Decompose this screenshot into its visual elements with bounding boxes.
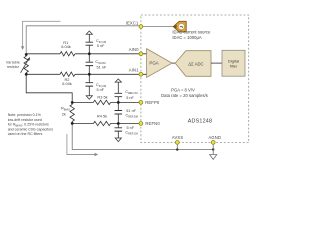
- capacitor Cin,cm on AIN1 with arrow down: [86, 74, 94, 99]
- pin AIN1: [139, 72, 143, 76]
- return current annotation arrow: [67, 134, 98, 156]
- digital filter block: [222, 50, 245, 76]
- svg-text:5 nF: 5 nF: [97, 44, 105, 48]
- label Variable resistor: [6, 60, 20, 69]
- Cin,dm labels: [95, 60, 106, 69]
- wire IEXC1 pin to IDAC: [141, 26, 173, 28]
- svg-text:used on the RC filters: used on the RC filters: [8, 132, 43, 136]
- pin AVSS: [175, 141, 179, 145]
- wire node B down to Rbias top: [26, 74, 72, 102]
- svg-text:R4 5k: R4 5k: [97, 114, 107, 119]
- wire Rbias bottom to AVSS rail: [72, 123, 213, 149]
- dashed box ADS1248 boundary: [141, 15, 249, 143]
- pin IEXC1: [139, 25, 143, 29]
- note text: [8, 113, 54, 136]
- wire R3 line REFP0: [72, 100, 141, 104]
- svg-text:51 nF: 51 nF: [97, 65, 107, 69]
- svg-text:5 nF: 5 nF: [127, 126, 135, 130]
- svg-text:AIN0: AIN0: [129, 47, 139, 52]
- svg-text:AVSS: AVSS: [172, 135, 183, 140]
- svg-text:6.04k: 6.04k: [62, 81, 72, 86]
- wire R4 line REFN0: [72, 121, 141, 125]
- svg-text:2k: 2k: [62, 111, 66, 116]
- svg-text:filter: filter: [230, 63, 238, 68]
- Rbias labels: [61, 106, 70, 117]
- svg-text:Variable: Variable: [6, 60, 20, 64]
- AVSS pin wire: [176, 142, 178, 149]
- AGND pin wire and ground: [210, 142, 217, 159]
- wire AIN1 line with resistor R2: [26, 72, 146, 76]
- capacitor Cref,dm between REFP0 and REFN0: [115, 102, 123, 123]
- svg-text:IEXC1: IEXC1: [126, 20, 139, 25]
- Cref,dm labels: [126, 109, 138, 119]
- svg-text:Data rate = 20 samples/s: Data rate = 20 samples/s: [161, 93, 208, 98]
- capacitor Cin,dm between AIN0 and AIN1: [86, 54, 94, 75]
- svg-text:ADS1248: ADS1248: [188, 119, 212, 125]
- capacitor Cref,cm on REFN0 with arrow down: [115, 124, 123, 142]
- IDAC text: [172, 30, 211, 40]
- pin AGND: [211, 141, 215, 145]
- ADC delta-sigma block: [175, 51, 211, 77]
- Cin,cm labels: [96, 39, 106, 48]
- Cin,cm2 labels: [96, 83, 106, 92]
- wire AIN0 line with resistor R1: [26, 52, 146, 56]
- resistor Rbias: [70, 103, 74, 124]
- svg-text:IDAC = 1000µA: IDAC = 1000µA: [172, 35, 202, 40]
- svg-text:REFN0: REFN0: [145, 121, 160, 126]
- wire ADC to digital filter: [211, 62, 222, 64]
- capacitor Cref,cm on REFP0 with arrow up: [115, 79, 123, 103]
- resistor R2 labels: [62, 77, 72, 86]
- wire IEXC1 to node A: [26, 26, 141, 55]
- node junction dots: [25, 52, 215, 150]
- pin labels: [126, 20, 221, 139]
- capacitor Cin,cm on AIN0 with arrow up: [86, 31, 94, 54]
- svg-text:resistor: resistor: [7, 65, 20, 69]
- Cref,cm bottom labels: [125, 126, 137, 136]
- PGA settings text: [161, 88, 208, 98]
- svg-text:6.04k: 6.04k: [61, 44, 71, 49]
- svg-text:5 nF: 5 nF: [126, 96, 134, 100]
- svg-text:low-drift resistor used: low-drift resistor used: [8, 118, 42, 122]
- svg-text:and ceramic C0G capacitors: and ceramic C0G capacitors: [8, 127, 54, 131]
- svg-text:51 nF: 51 nF: [126, 109, 136, 113]
- pin REFP0: [139, 101, 143, 105]
- svg-text:ΔΣ ADC: ΔΣ ADC: [188, 61, 203, 66]
- svg-text:PGA: PGA: [149, 60, 158, 65]
- resistor R1 labels: [61, 40, 71, 49]
- variable resistor (RTD): [21, 55, 30, 75]
- svg-text:5 nF: 5 nF: [97, 88, 105, 92]
- op-amp PGA triangle: [147, 49, 172, 78]
- svg-text:R3 5k: R3 5k: [97, 94, 107, 99]
- svg-text:AIN1: AIN1: [129, 68, 139, 73]
- IDAC current direction annotation arrow: [21, 21, 61, 50]
- svg-text:REFP0: REFP0: [145, 100, 160, 105]
- IDAC current source symbol: [173, 21, 186, 32]
- svg-text:AGND: AGND: [208, 135, 221, 140]
- Cref,cm top labels: [125, 90, 137, 100]
- wire PGA to ADC: [172, 62, 175, 64]
- pin AIN0: [139, 52, 143, 56]
- pin REFN0: [139, 122, 143, 126]
- svg-text:Note: precision 0.1%: Note: precision 0.1%: [8, 113, 42, 117]
